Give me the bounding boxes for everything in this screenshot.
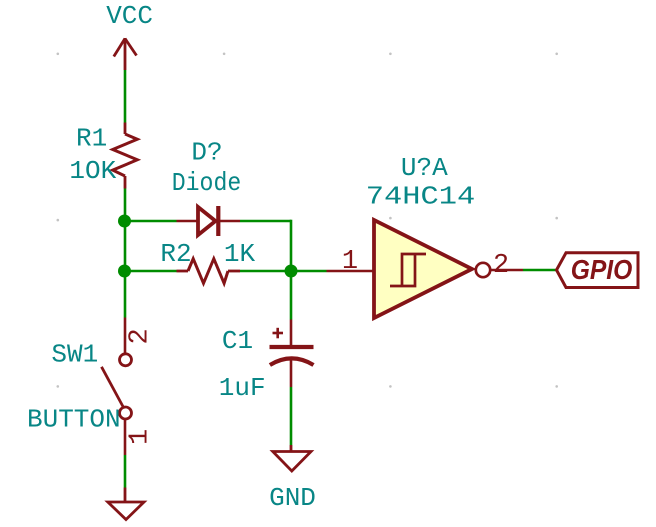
capacitor C1 <box>270 320 314 388</box>
junction node A <box>118 215 131 228</box>
wire node A to node B <box>124 221 127 271</box>
svg-text:1: 1 <box>342 247 358 277</box>
wire node A to diode <box>124 220 177 223</box>
wire C1 to GND <box>290 387 293 445</box>
hysteresis symbol <box>390 254 415 286</box>
svg-text:R2: R2 <box>160 239 191 269</box>
wire U1 pin 2 to GPIO <box>523 269 558 272</box>
svg-text:1uF: 1uF <box>219 373 266 403</box>
svg-text:C1: C1 <box>222 326 253 356</box>
wire node C to U1 pin 1 <box>291 270 327 273</box>
output inversion bubble <box>476 263 490 277</box>
resistor R1 <box>113 123 138 189</box>
junction node C <box>285 265 298 278</box>
ground flag below SW1 <box>108 488 144 520</box>
svg-text:U?A: U?A <box>401 153 448 183</box>
svg-text:R1: R1 <box>76 124 107 154</box>
svg-text:2: 2 <box>126 328 156 344</box>
resistor R2 <box>177 259 241 284</box>
diode D? <box>177 206 241 236</box>
svg-text:VCC: VCC <box>106 1 153 31</box>
svg-text:GND: GND <box>269 483 316 513</box>
svg-text:1: 1 <box>126 429 156 445</box>
svg-text:1OK: 1OK <box>69 156 116 186</box>
switch SW1 <box>102 318 132 456</box>
wire diode to corner <box>240 220 291 223</box>
U1 pin 2 <box>491 269 524 272</box>
U1 pin 1 <box>327 270 375 273</box>
svg-text:74HC14: 74HC14 <box>366 182 475 211</box>
svg-text:2: 2 <box>493 251 509 281</box>
svg-text:SW1: SW1 <box>51 340 98 370</box>
wire node B to R2 <box>124 270 177 273</box>
wire SW1 to ground flag <box>124 455 127 488</box>
power symbol VCC <box>114 38 137 70</box>
wire R1 to node A <box>124 189 127 222</box>
svg-text:Diode: Diode <box>172 170 241 199</box>
grid dots <box>57 53 559 388</box>
junction node B <box>118 265 131 278</box>
wire node B to SW1 <box>124 271 127 318</box>
svg-text:1K: 1K <box>224 239 256 269</box>
wire corner down to node C <box>290 220 293 271</box>
wire R2 to node C <box>240 270 291 273</box>
svg-text:D?: D? <box>191 138 222 168</box>
wire node C to C1 <box>290 271 293 320</box>
wire VCC to R1 <box>124 70 127 123</box>
global label GPIO <box>557 253 639 288</box>
svg-text:GPIO: GPIO <box>571 254 633 286</box>
svg-text:BUTTON: BUTTON <box>27 405 121 435</box>
ground symbol GND <box>273 445 311 471</box>
op-amp U1 schmitt trigger inverter <box>374 220 490 318</box>
